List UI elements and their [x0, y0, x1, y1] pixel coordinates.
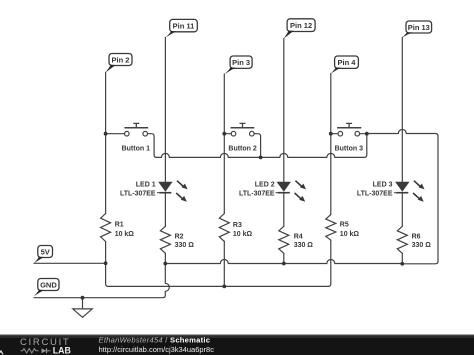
wire LED3 cathode to R6 top [401, 193, 403, 227]
svg-text:LED 3: LED 3 [373, 181, 393, 188]
svg-text:LTL-307EE: LTL-307EE [239, 191, 275, 198]
logo diode [42, 348, 47, 353]
node Pin2/Button1 [104, 132, 108, 136]
wire button3 right to node [360, 133, 367, 135]
resistor R6 [397, 226, 407, 253]
svg-text:Pin 11: Pin 11 [173, 22, 195, 31]
svg-text:R4: R4 [294, 234, 303, 241]
flag Pin 4 [331, 56, 359, 74]
node Pin4/Button3 [329, 132, 333, 136]
node 5V / R1 bottom [104, 261, 108, 265]
wire Pin2 to Button1 left / R1 top (column A1) [105, 73, 107, 214]
svg-text:GND: GND [40, 280, 57, 289]
svg-text:R3: R3 [233, 222, 242, 229]
wire button1 right jog down to common rail [148, 134, 157, 158]
svg-text:10 kΩ: 10 kΩ [233, 231, 253, 238]
svg-text:LED 2: LED 2 [255, 181, 275, 188]
wire R1 bottom to 5V rail node [105, 242, 107, 264]
svg-text:R2: R2 [175, 234, 184, 241]
svg-text:R1: R1 [115, 222, 124, 229]
svg-text:LTL-307EE: LTL-307EE [120, 191, 156, 198]
pushbutton SW1 (Button 1) [124, 123, 148, 136]
LED D3 (LED 3) [394, 181, 425, 202]
wire Pin13 / LED3 column (B3) [401, 37, 403, 182]
node R6 bottom / GND [400, 262, 404, 266]
svg-text:Pin 13: Pin 13 [408, 23, 430, 32]
pushbutton SW2 (Button 2) [231, 123, 255, 136]
node R2 bottom / GND [163, 262, 167, 266]
node ground symbol [81, 296, 85, 300]
svg-text:Button 3: Button 3 [335, 146, 363, 153]
wire button2 right jog [254, 134, 260, 158]
svg-text:LAB: LAB [53, 345, 71, 355]
node Button3 right [365, 132, 369, 136]
svg-text:LTL-307EE: LTL-307EE [357, 191, 393, 198]
flag Pin 12 [284, 19, 316, 39]
svg-text:R5: R5 [340, 221, 349, 228]
wire GND rail from flag, riser up at x=165.3 with hop over 5V line [34, 264, 169, 298]
svg-text:LED 1: LED 1 [136, 181, 156, 188]
wire R2 bottom to GND node [164, 253, 166, 263]
svg-text:330 Ω: 330 Ω [294, 242, 314, 249]
flag Pin 2 [105, 54, 132, 73]
wire common button-right rail y=157.4 with hops [157, 134, 367, 158]
flag GND [34, 279, 59, 297]
svg-text:EthanWebster454 / Schematic: EthanWebster454 / Schematic [99, 336, 211, 345]
LED D1 (LED 1) [157, 181, 188, 202]
pushbutton SW3 (Button 3) [337, 123, 361, 136]
wire LED1 cathode to R2 top [164, 193, 166, 227]
resistor R5 [326, 215, 336, 241]
svg-text:Pin 4: Pin 4 [338, 58, 357, 67]
wire 5V net: down from node, right along y=286.4, up to R5 bottom [106, 240, 331, 286]
svg-text:Button 2: Button 2 [228, 146, 256, 153]
svg-text:10 kΩ: 10 kΩ [115, 231, 135, 238]
flag Pin 11 [165, 19, 197, 37]
svg-text:R6: R6 [412, 234, 421, 241]
wire button1 left link [106, 133, 125, 135]
svg-text:Pin 3: Pin 3 [232, 58, 250, 67]
flag Pin 13 [402, 21, 432, 38]
svg-text:http://circuitlab.com/cj3k34ua: http://circuitlab.com/cj3k34ua6pr8c [99, 345, 215, 354]
wire LED2 cathode to R4 top [283, 193, 285, 227]
resistor R2 [160, 226, 170, 253]
LED D2 (LED 2) [275, 181, 306, 202]
svg-text:Button 1: Button 1 [122, 146, 150, 153]
svg-text:Pin 12: Pin 12 [290, 21, 312, 30]
wire Pin11 / LED1 column (B1) [164, 38, 166, 183]
node Button2 right rail [259, 156, 263, 160]
svg-text:330 Ω: 330 Ω [412, 242, 432, 249]
wire Pin12 / LED2 column (B2) [283, 39, 285, 182]
wire Pin4 to Button3 left / R5 top (column A3) [330, 74, 332, 215]
svg-text:5V: 5V [41, 247, 50, 256]
wire button3 left link [331, 133, 338, 135]
flag 5V [34, 246, 53, 264]
svg-text:330 Ω: 330 Ω [175, 242, 195, 249]
wire 5V rail from flag to node A1 [34, 262, 106, 264]
wire GND net y=263.5: R2,R4,R6 bottoms, right side riser to button-right net [165, 130, 438, 264]
node Pin3/Button2 [222, 132, 226, 136]
wire button2 left link [224, 133, 231, 135]
svg-text:Pin 2: Pin 2 [112, 55, 130, 64]
logo resistor zigzag [21, 349, 39, 353]
node R3 bottom / 5V line [222, 285, 226, 289]
resistor R3 [219, 214, 229, 242]
text labels [115, 146, 432, 250]
resistor R4 [279, 226, 289, 253]
resistor R1 [101, 214, 111, 242]
logo corner mark [0, 351, 3, 355]
svg-text:10 kΩ: 10 kΩ [340, 231, 360, 238]
ground symbol [73, 298, 92, 318]
node R4 bottom / GND [282, 262, 286, 266]
footer bar [0, 335, 474, 355]
wire R4 bottom to GND node [283, 253, 285, 263]
wire Pin3 to Button2 left / R3 top (column A2) [223, 74, 225, 214]
flag Pin 3 [224, 56, 252, 74]
wire R3 bottom down to 5V line [223, 241, 225, 286]
wire R6 bottom to GND node [401, 253, 403, 263]
